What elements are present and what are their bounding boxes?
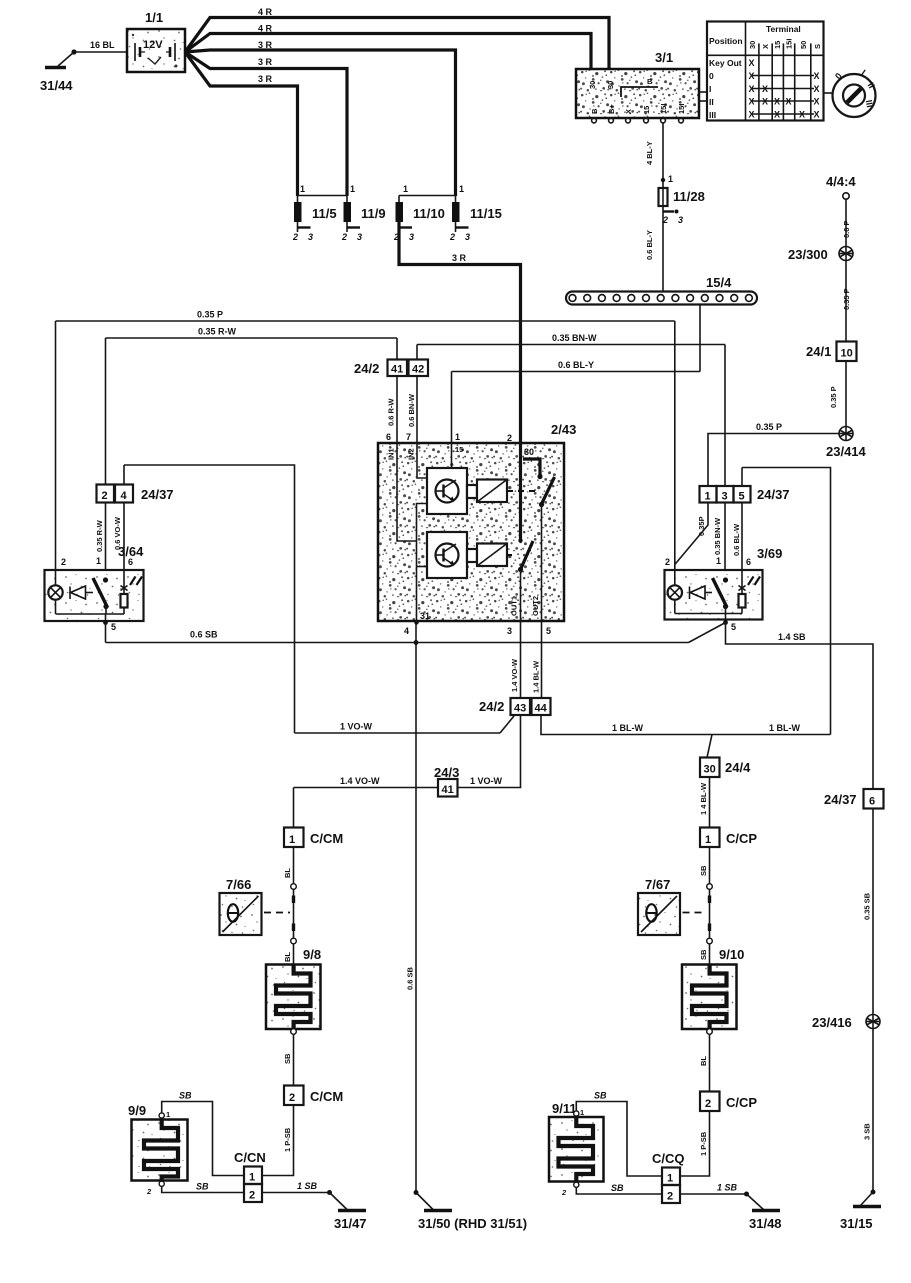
svg-text:0.6 SB: 0.6 SB <box>190 630 218 640</box>
svg-text:4 BL-Y: 4 BL-Y <box>645 141 654 165</box>
svg-text:1 BL-W: 1 BL-W <box>612 723 644 733</box>
svg-text:2: 2 <box>561 1188 567 1197</box>
fuse 11/28 <box>645 188 705 292</box>
switch 3/64 <box>45 544 145 632</box>
wire 0.6 SB module pin 4 to ground 31/50 <box>406 621 419 1195</box>
svg-text:1 VO-W: 1 VO-W <box>340 722 373 732</box>
svg-text:2: 2 <box>249 1190 255 1202</box>
svg-text:IN2: IN2 <box>407 448 416 460</box>
wire 0.6 P to splice 23/300 <box>842 199 851 246</box>
dashed actuator link K2 <box>507 554 515 556</box>
svg-text:11/9: 11/9 <box>361 206 386 221</box>
svg-text:C/CN: C/CN <box>234 1150 266 1165</box>
svg-text:0: 0 <box>709 71 714 81</box>
svg-text:6: 6 <box>386 432 391 442</box>
svg-text:X: X <box>774 110 780 120</box>
wire 0.35 P 24/37-1 to switch 3/69 pin 2 <box>673 503 708 574</box>
svg-text:X: X <box>624 109 633 114</box>
wire 0.6 BL-Y line 15/4 to module pin 1 <box>452 360 701 443</box>
svg-text:3: 3 <box>678 215 683 225</box>
svg-text:C/CP: C/CP <box>726 1095 757 1110</box>
connector 24/37 pins 1 3 5 (right) <box>700 486 790 503</box>
svg-text:SB: SB <box>699 865 708 876</box>
splice 23/416 <box>812 1015 880 1031</box>
indicator symbol in 3/64 <box>70 586 93 599</box>
svg-text:3: 3 <box>465 232 470 242</box>
svg-text:X: X <box>814 84 820 94</box>
svg-text:1: 1 <box>300 184 305 194</box>
wire 0.35 P splice 23/414 to connector 24/37 pin 1 <box>708 422 839 486</box>
wire 15/4 down to 0.6 BL-Y line <box>699 305 701 372</box>
connector C/CP pin 2 <box>700 1092 757 1112</box>
svg-text:SB: SB <box>594 1091 607 1101</box>
svg-text:3 R: 3 R <box>258 57 273 67</box>
svg-text:1 SB: 1 SB <box>297 1181 318 1191</box>
svg-text:0.35 P: 0.35 P <box>197 310 223 320</box>
heater element 9/9 <box>128 1103 188 1196</box>
svg-text:24/1: 24/1 <box>806 344 831 359</box>
svg-text:5: 5 <box>546 626 551 636</box>
svg-text:3 R: 3 R <box>452 253 467 263</box>
svg-text:1: 1 <box>249 1172 255 1184</box>
svg-text:OUT2: OUT2 <box>531 596 540 616</box>
wire T1 emitter to pin 4 rail <box>417 504 428 622</box>
heater element 9/8 <box>266 947 321 1029</box>
wire 1.4 VO-W module pin 3 to 24/2-43 <box>510 621 521 698</box>
svg-text:Key Out: Key Out <box>709 58 742 68</box>
svg-text:2: 2 <box>146 1187 152 1196</box>
svg-text:2: 2 <box>449 232 455 242</box>
ignition position table <box>707 22 833 121</box>
transistor T2 <box>427 532 467 578</box>
svg-text:Terminal: Terminal <box>766 24 801 34</box>
splice 23/414 <box>826 427 867 460</box>
wire 24/2-43 down to 24/3 line <box>458 715 521 788</box>
svg-text:15: 15 <box>642 106 651 114</box>
lamp in 3/69 <box>668 570 682 614</box>
svg-text:1: 1 <box>705 491 711 503</box>
wire 3 R battery to fuse 11/15 <box>185 40 456 196</box>
svg-text:31: 31 <box>420 611 430 621</box>
node module pin 4 <box>414 620 418 624</box>
svg-text:B: B <box>590 108 599 114</box>
wire 0.35 R-W 24/37-2 to switch 3/64 pin 1 <box>95 503 106 581</box>
wire 1.4 BL-W module pin 5 to 24/2-44 <box>532 621 542 698</box>
svg-text:0.35 P: 0.35 P <box>756 422 782 432</box>
svg-text:3 SB: 3 SB <box>863 1123 872 1140</box>
svg-text:0.35 BN-W: 0.35 BN-W <box>713 517 722 555</box>
wire module pin 7 to transistor T1 base <box>417 443 427 478</box>
fuse 11/10 <box>393 184 445 242</box>
svg-text:C/CQ: C/CQ <box>652 1151 685 1166</box>
svg-text:5: 5 <box>739 491 745 503</box>
svg-text:0.6 BL-Y: 0.6 BL-Y <box>558 360 594 370</box>
svg-text:X: X <box>762 84 768 94</box>
svg-text:0.6 BN-W: 0.6 BN-W <box>407 393 416 427</box>
svg-text:1: 1 <box>705 834 711 846</box>
svg-text:11/5: 11/5 <box>312 206 337 221</box>
svg-text:1 VO-W: 1 VO-W <box>470 776 503 786</box>
svg-text:12V: 12V <box>143 39 163 51</box>
svg-text:15: 15 <box>773 41 782 49</box>
svg-text:4: 4 <box>404 626 409 636</box>
svg-text:2: 2 <box>667 1191 673 1203</box>
svg-text:24/3: 24/3 <box>434 765 459 780</box>
svg-text:0.6 R-W: 0.6 R-W <box>387 398 396 426</box>
svg-text:1 SB: 1 SB <box>717 1183 738 1193</box>
svg-text:1.4 VO-W: 1.4 VO-W <box>340 776 380 786</box>
svg-text:X: X <box>749 71 755 81</box>
wire module pin 6 IN1 to transistor T2 base <box>397 443 417 541</box>
fuse 11/15 <box>449 184 502 242</box>
connector C/CQ pins 1 2 <box>652 1151 685 1203</box>
svg-text:41: 41 <box>442 784 454 796</box>
svg-text:4/4:4: 4/4:4 <box>826 174 856 189</box>
svg-text:24/4: 24/4 <box>725 760 751 775</box>
svg-text:SB: SB <box>611 1183 624 1193</box>
svg-text:X: X <box>799 110 805 120</box>
thermostat 7/66 <box>220 877 291 935</box>
resistor branch in 3/64 <box>121 570 128 614</box>
svg-text:24/37: 24/37 <box>141 487 174 502</box>
connector 24/2 pins 41 42 <box>354 360 428 377</box>
wire SB 9/11 pin 1 to C/CQ pin 1 <box>576 1091 662 1177</box>
wire SB 9/9 pin 1 to C/CN pin 1 <box>162 1091 244 1176</box>
svg-text:1: 1 <box>403 184 408 194</box>
switch arm in 3/69 <box>713 577 729 613</box>
svg-text:1.4 SB: 1.4 SB <box>778 632 806 642</box>
svg-text:1 P-SB: 1 P-SB <box>283 1127 292 1152</box>
svg-text:2: 2 <box>341 232 347 242</box>
svg-text:0.35 R-W: 0.35 R-W <box>95 519 104 552</box>
svg-text:3: 3 <box>308 232 313 242</box>
connector 24/2 pins 43 44 <box>479 698 551 715</box>
svg-text:15I: 15I <box>677 104 686 114</box>
heat marks in 3/64 <box>130 577 142 586</box>
transistor T1 <box>427 468 467 514</box>
svg-text:SB: SB <box>179 1091 192 1101</box>
svg-text:0.35 BN-W: 0.35 BN-W <box>552 333 597 343</box>
svg-text:1: 1 <box>667 1173 673 1185</box>
wire 0.35 BN-W line to 24/37 pin 3 <box>417 333 725 486</box>
ignition switch 3/1 <box>576 50 707 123</box>
svg-text:1.4 BL-W: 1.4 BL-W <box>532 660 541 693</box>
svg-text:X: X <box>814 110 820 120</box>
fuse 11/9 <box>341 184 386 242</box>
wire 3 SB splice to ground 31/15 <box>863 1029 876 1195</box>
connector 24/37 pin 6 <box>824 789 884 809</box>
svg-text:0.35 R-W: 0.35 R-W <box>198 327 237 337</box>
svg-text:31/47: 31/47 <box>334 1216 367 1231</box>
wire 16 BL battery to ground <box>74 40 127 52</box>
svg-text:1 P-SB: 1 P-SB <box>699 1131 708 1156</box>
svg-text:7/66: 7/66 <box>226 877 251 892</box>
svg-text:9/8: 9/8 <box>303 947 321 962</box>
svg-text:24/37: 24/37 <box>824 792 857 807</box>
svg-text:15I: 15I <box>659 104 668 114</box>
svg-text:15/4: 15/4 <box>706 275 732 290</box>
svg-text:6: 6 <box>869 796 875 808</box>
thermostat 7/67 <box>638 877 706 935</box>
wire 1 VO-W 24/2-43 branch to feedback line <box>295 716 515 733</box>
svg-text:9/11: 9/11 <box>552 1101 577 1116</box>
svg-text:2/43: 2/43 <box>551 422 576 437</box>
battery 1/1 <box>127 10 185 72</box>
wire BL 9/10 to C/CP pin 2 <box>699 1029 712 1092</box>
svg-text:0.35P: 0.35P <box>697 516 706 536</box>
svg-text:3/1: 3/1 <box>655 50 673 65</box>
svg-text:2: 2 <box>665 557 670 567</box>
wire 0.35 P lamp feed line <box>56 310 675 586</box>
svg-text:31/48: 31/48 <box>749 1216 782 1231</box>
fuse 11/5 <box>292 184 337 242</box>
svg-text:1: 1 <box>166 1110 170 1119</box>
svg-text:B+: B+ <box>607 104 616 114</box>
svg-text:3: 3 <box>507 626 512 636</box>
wire 1 SB C/CN-2 to ground 31/47 <box>262 1181 332 1195</box>
svg-text:31/44: 31/44 <box>40 78 73 93</box>
wire SB 9/8 to C/CM pin 2 <box>283 1029 296 1086</box>
wire module pin 1 internal <box>451 443 453 468</box>
svg-text:B: B <box>647 77 653 86</box>
svg-text:1: 1 <box>96 556 101 566</box>
wire OUT2 inside module <box>541 505 543 622</box>
svg-text:II: II <box>709 97 714 107</box>
wire SB C/CP-1 to heater 9/10 <box>699 847 712 965</box>
ground 31/47 <box>330 1193 367 1232</box>
svg-text:30: 30 <box>748 41 757 49</box>
svg-text:X: X <box>761 44 770 49</box>
wire 1 SB C/CQ-2 to ground 31/48 <box>680 1183 749 1197</box>
wire 3 R fuse 11/10 to module 2/43 pin 2 <box>399 222 521 443</box>
svg-text:7/67: 7/67 <box>645 877 670 892</box>
wire 0.35 BN-W 24/37-3 to switch 3/69 pin 1 <box>713 503 725 581</box>
connector C/CM pin 1 <box>284 828 343 848</box>
svg-text:X: X <box>774 97 780 107</box>
ground 31/48 <box>747 1194 782 1231</box>
connector 24/3 pin 41 <box>434 765 459 797</box>
connector C/CM pin 2 <box>284 1086 343 1106</box>
svg-text:0.6 BL-W: 0.6 BL-W <box>732 523 741 556</box>
svg-text:3 R: 3 R <box>258 40 273 50</box>
wire 1 BL-W 24/2-44 to right riser <box>541 715 831 735</box>
wire 3 R battery to fuse 11/9 <box>185 52 347 196</box>
svg-text:X: X <box>749 97 755 107</box>
svg-text:11/10: 11/10 <box>413 206 445 221</box>
wire fuse bus 11/10 to 11/15 <box>399 195 456 197</box>
svg-text:24/2: 24/2 <box>479 699 504 714</box>
wire 1 P-SB C/CP-2 to C/CQ pin 1 <box>680 1111 710 1176</box>
wire 1 P-SB C/CM-2 to C/CN pin 1 <box>262 1105 294 1176</box>
svg-text:30: 30 <box>606 81 615 89</box>
wire 4 R battery to 3/1 pin 30 (outer) <box>185 7 609 70</box>
svg-text:30: 30 <box>524 447 534 457</box>
dashed actuator link K1 <box>507 490 536 492</box>
svg-text:IN1: IN1 <box>387 448 396 460</box>
wire SB 9/11 pin 2 to C/CQ pin 2 <box>576 1183 662 1194</box>
switch 3/69 <box>665 546 783 632</box>
svg-text:0.35 P: 0.35 P <box>829 386 838 408</box>
wire BL C/CM-1 to heater 9/8 <box>283 847 296 965</box>
svg-text:X: X <box>814 71 820 81</box>
wire 0.6 BL-W 24/37-5 to feedback riser <box>732 468 831 735</box>
svg-text:2: 2 <box>61 557 66 567</box>
svg-text:BL: BL <box>283 952 292 962</box>
wire 0.35 R-W line to 24/37 pin 2 <box>106 327 398 485</box>
svg-text:X: X <box>749 58 755 68</box>
svg-text:3: 3 <box>722 491 728 503</box>
svg-text:15I: 15I <box>785 39 794 49</box>
bottom rail in 3/64 <box>56 614 125 625</box>
svg-text:I: I <box>709 84 711 94</box>
svg-text:31/50 (RHD 31/51): 31/50 (RHD 31/51) <box>418 1216 527 1231</box>
svg-text:2: 2 <box>289 1092 295 1104</box>
wire 0.35 P splice to 24/1 <box>842 261 851 342</box>
svg-text:44: 44 <box>535 703 548 715</box>
svg-text:III: III <box>709 110 716 120</box>
svg-text:1: 1 <box>716 556 721 566</box>
lamp in 3/64 <box>48 570 62 614</box>
svg-text:15: 15 <box>455 445 463 454</box>
bottom rail in 3/69 <box>675 614 742 625</box>
svg-text:3: 3 <box>357 232 362 242</box>
svg-text:SB: SB <box>196 1182 209 1192</box>
svg-text:9/9: 9/9 <box>128 1103 146 1118</box>
svg-text:0.6 SB: 0.6 SB <box>406 966 415 990</box>
relay contact S2 <box>518 541 533 572</box>
svg-text:2: 2 <box>102 490 108 502</box>
svg-text:1: 1 <box>459 184 464 194</box>
ground 31/44 <box>40 49 77 93</box>
svg-text:1 4 BL-W: 1 4 BL-W <box>699 782 708 815</box>
svg-text:OUT1: OUT1 <box>510 596 519 616</box>
svg-text:3/69: 3/69 <box>757 546 782 561</box>
svg-text:0.6 BL-Y: 0.6 BL-Y <box>645 230 654 260</box>
svg-text:C/CM: C/CM <box>310 831 343 846</box>
wire 0.35 P 24/1 to splice 23/414 <box>829 361 846 427</box>
svg-text:X: X <box>814 97 820 107</box>
svg-text:16 BL: 16 BL <box>90 40 115 50</box>
svg-text:X: X <box>786 97 792 107</box>
svg-text:6: 6 <box>746 557 751 567</box>
wire 3 R battery to fuse 11/5 <box>185 52 298 196</box>
wire 0.6 BN-W 24/2-42 to module pin 7 <box>407 376 417 443</box>
connector C/CN pins 1 2 <box>234 1150 266 1202</box>
svg-text:23/414: 23/414 <box>826 444 867 459</box>
wire T2 base stub <box>417 566 428 568</box>
connector 24/37 pins 2 4 (left) <box>97 485 174 503</box>
svg-text:5: 5 <box>111 622 116 632</box>
wire branch to 24/4 <box>707 735 712 758</box>
wire SB 9/9 pin 2 to C/CN pin 2 <box>162 1182 244 1193</box>
svg-text:1/1: 1/1 <box>145 10 163 25</box>
svg-text:3 R: 3 R <box>258 74 273 84</box>
svg-text:2: 2 <box>705 1098 711 1110</box>
svg-text:1: 1 <box>455 432 460 442</box>
svg-text:31/15: 31/15 <box>840 1216 873 1231</box>
heat marks in 3/69 <box>748 577 760 586</box>
wire 0.6 VO-W 24/37-4 up to feedback line <box>113 465 295 733</box>
switch arm in 3/64 <box>93 577 109 614</box>
svg-text:7: 7 <box>406 432 411 442</box>
svg-text:1: 1 <box>668 174 673 184</box>
svg-text:23/416: 23/416 <box>812 1015 852 1030</box>
wire 0.6 SB 3/64 pin 5 to 3/69 pin 5 <box>106 623 726 645</box>
svg-text:9/10: 9/10 <box>719 947 744 962</box>
svg-text:5: 5 <box>731 622 736 632</box>
heater element 9/11 <box>549 1101 604 1197</box>
svg-text:30: 30 <box>588 81 597 89</box>
svg-text:10: 10 <box>841 348 853 360</box>
svg-text:0.35 P: 0.35 P <box>842 288 851 310</box>
svg-text:30: 30 <box>704 764 716 776</box>
wire 1.4 SB 3/69 pin 5 to 24/37 pin 6 <box>726 623 874 790</box>
svg-text:1: 1 <box>350 184 355 194</box>
svg-text:24/2: 24/2 <box>354 361 379 376</box>
svg-text:BL: BL <box>699 1056 708 1066</box>
heater element 9/10 <box>682 947 744 1029</box>
svg-text:4: 4 <box>121 490 128 502</box>
relay coil K2 <box>467 544 507 567</box>
svg-text:23/300: 23/300 <box>788 247 828 262</box>
svg-text:0.35 SB: 0.35 SB <box>863 892 872 920</box>
svg-text:1.4 VO-W: 1.4 VO-W <box>510 658 519 692</box>
splice 23/300 <box>788 247 853 263</box>
svg-text:2: 2 <box>292 232 298 242</box>
svg-text:C/CM: C/CM <box>310 1089 343 1104</box>
svg-text:X: X <box>749 110 755 120</box>
svg-text:BL: BL <box>283 868 292 878</box>
indicator symbol in 3/69 <box>690 586 713 599</box>
30 feed branch inside module <box>518 443 542 543</box>
svg-text:C/CP: C/CP <box>726 831 757 846</box>
svg-text:42: 42 <box>412 364 424 376</box>
wire 0.35 SB 24/37-6 to splice 23/416 <box>863 809 874 1015</box>
svg-text:1: 1 <box>289 834 295 846</box>
svg-text:1 BL-W: 1 BL-W <box>769 723 801 733</box>
connector strip 15/4 <box>566 275 757 305</box>
relay coil K1 <box>467 480 507 503</box>
svg-text:11/15: 11/15 <box>470 206 502 221</box>
wire fuse bus 11/5 to 11/9 <box>298 195 348 197</box>
wire OUT1 inside module <box>520 570 522 622</box>
wire 1.4 BL-W 24/4 to C/CP pin 1 <box>699 777 710 828</box>
relay contact S1 <box>539 477 555 507</box>
svg-text:SB: SB <box>283 1053 292 1064</box>
svg-text:2: 2 <box>507 433 512 443</box>
ignition key symbol <box>833 68 877 117</box>
wire 0.6 R-W 24/2-41 to module pin 6 <box>387 376 398 443</box>
svg-text:X: X <box>762 97 768 107</box>
svg-text:S: S <box>813 44 822 49</box>
svg-text:2: 2 <box>662 215 668 225</box>
wire 1.4 VO-W 24/3 to C/CM pin 1 <box>294 776 439 828</box>
svg-text:4 R: 4 R <box>258 7 273 17</box>
node 4/4:4 <box>826 174 856 199</box>
svg-text:6: 6 <box>128 557 133 567</box>
connector 24/1 pin 10 <box>806 342 857 362</box>
svg-text:Position: Position <box>709 36 743 46</box>
svg-text:4 R: 4 R <box>258 24 273 34</box>
wire 4 R battery to 3/1 pin 30 (inner) <box>185 24 591 71</box>
svg-text:43: 43 <box>514 703 526 715</box>
ground 31/50 <box>416 1193 527 1232</box>
svg-text:11/28: 11/28 <box>673 189 705 204</box>
svg-text:50: 50 <box>799 41 808 49</box>
svg-text:SB: SB <box>699 949 708 960</box>
resistor branch in 3/69 <box>739 570 746 614</box>
relay module 2/43 <box>378 422 576 636</box>
